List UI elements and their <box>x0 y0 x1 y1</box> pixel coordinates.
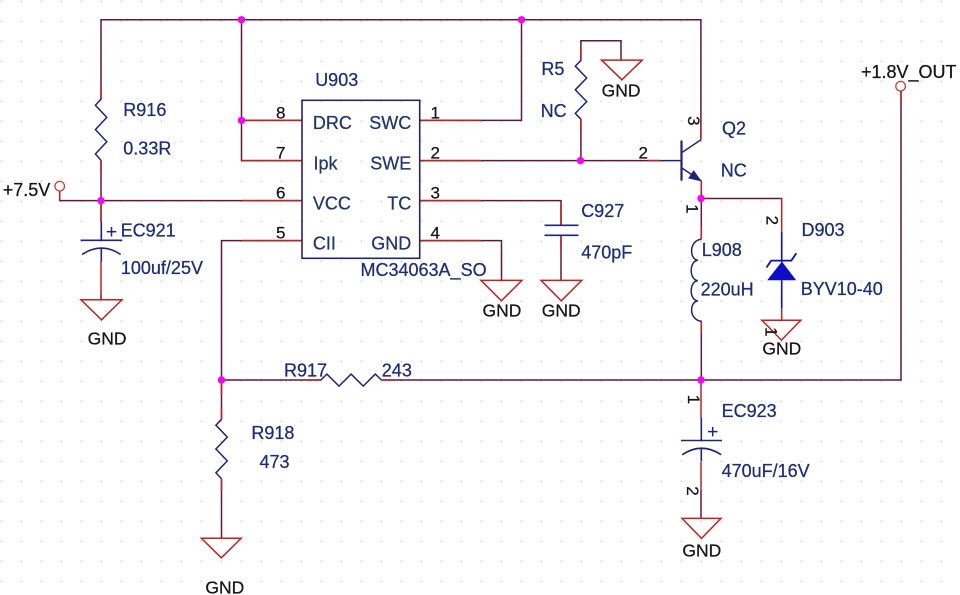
svg-text:Q2: Q2 <box>722 118 746 138</box>
svg-text:2: 2 <box>683 486 702 495</box>
svg-text:2: 2 <box>431 144 440 163</box>
svg-text:2: 2 <box>763 216 782 225</box>
svg-text:7: 7 <box>276 144 285 163</box>
svg-text:L908: L908 <box>702 240 742 260</box>
svg-text:R5: R5 <box>541 59 564 79</box>
svg-text:C927: C927 <box>581 201 624 221</box>
svg-text:470pF: 470pF <box>581 242 632 262</box>
svg-text:1: 1 <box>761 327 780 336</box>
svg-text:SWE: SWE <box>370 153 411 173</box>
svg-text:D903: D903 <box>802 220 845 240</box>
svg-text:U903: U903 <box>315 70 358 90</box>
svg-text:220uH: 220uH <box>701 280 754 300</box>
svg-text:0.33R: 0.33R <box>123 139 171 159</box>
svg-text:GND: GND <box>483 301 522 321</box>
svg-text:GND: GND <box>371 233 411 253</box>
svg-text:1: 1 <box>431 103 440 122</box>
svg-text:100uf/25V: 100uf/25V <box>121 258 203 278</box>
svg-text:TC: TC <box>387 193 411 213</box>
svg-text:3: 3 <box>684 116 703 125</box>
svg-text:GND: GND <box>682 540 721 560</box>
svg-text:GND: GND <box>88 329 127 349</box>
svg-text:GND: GND <box>762 338 801 358</box>
svg-text:VCC: VCC <box>313 193 351 213</box>
svg-text:BYV10-40: BYV10-40 <box>801 279 883 299</box>
svg-text:MC34063A_SO: MC34063A_SO <box>361 260 487 281</box>
svg-text:SWC: SWC <box>369 113 411 133</box>
svg-text:2: 2 <box>639 144 648 163</box>
svg-text:+7.5V: +7.5V <box>3 180 51 200</box>
svg-text:NC: NC <box>721 161 747 181</box>
svg-text:NC: NC <box>541 101 567 121</box>
svg-text:243: 243 <box>382 361 412 381</box>
svg-text:Ipk: Ipk <box>314 153 339 173</box>
svg-text:+1.8V_OUT: +1.8V_OUT <box>861 62 957 83</box>
svg-text:5: 5 <box>276 224 285 243</box>
svg-text:8: 8 <box>276 103 285 122</box>
svg-text:EC921: EC921 <box>121 221 176 241</box>
svg-text:R917: R917 <box>284 361 327 381</box>
svg-text:R916: R916 <box>123 100 166 120</box>
svg-text:DRC: DRC <box>313 113 352 133</box>
svg-text:1: 1 <box>684 395 703 404</box>
svg-text:4: 4 <box>431 224 440 243</box>
svg-text:GND: GND <box>602 81 641 101</box>
svg-text:R918: R918 <box>251 423 294 443</box>
svg-text:GND: GND <box>542 301 581 321</box>
svg-text:470uF/16V: 470uF/16V <box>722 461 810 481</box>
svg-text:EC923: EC923 <box>722 401 777 421</box>
svg-text:473: 473 <box>260 452 290 472</box>
svg-text:3: 3 <box>431 184 440 203</box>
svg-text:6: 6 <box>276 184 285 203</box>
svg-text:CII: CII <box>313 233 336 253</box>
svg-text:1: 1 <box>682 204 701 213</box>
svg-text:GND: GND <box>205 578 244 595</box>
